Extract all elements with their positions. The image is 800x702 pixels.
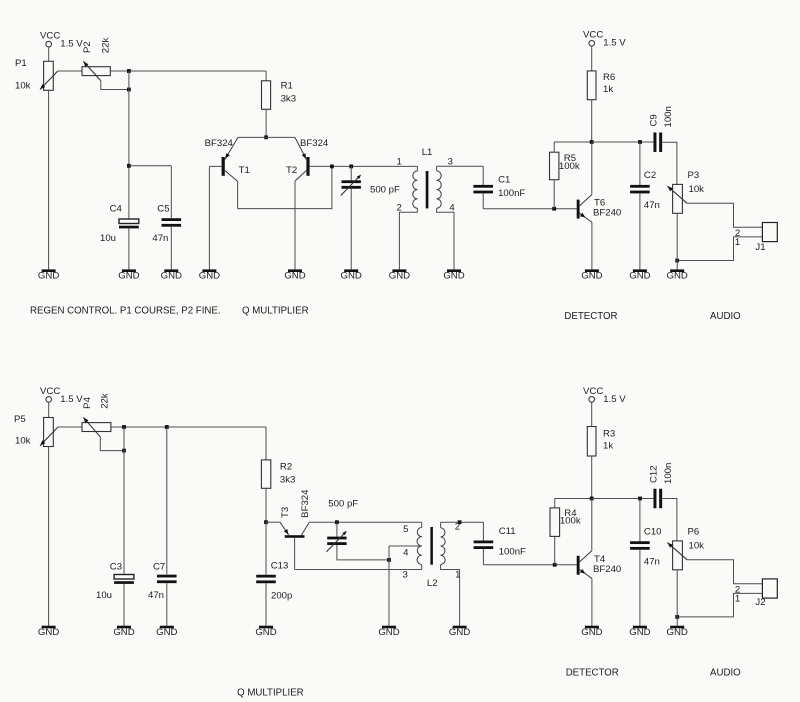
svg-text:P3: P3 [688, 170, 700, 181]
svg-text:3: 3 [448, 156, 453, 167]
svg-text:100n: 100n [663, 463, 674, 484]
svg-text:GND: GND [38, 271, 59, 282]
svg-text:GND: GND [118, 271, 139, 282]
svg-text:GND: GND [341, 271, 362, 282]
svg-text:1: 1 [455, 570, 460, 581]
svg-text:GND: GND [255, 627, 276, 638]
svg-text:BF324: BF324 [300, 489, 311, 518]
svg-text:100nF: 100nF [498, 188, 525, 199]
svg-text:GND: GND [113, 627, 134, 638]
svg-text:1: 1 [735, 237, 740, 248]
svg-text:1k: 1k [603, 84, 613, 95]
svg-text:T1: T1 [239, 165, 250, 176]
svg-text:4: 4 [403, 548, 409, 559]
svg-text:C4: C4 [110, 203, 123, 214]
svg-text:1: 1 [735, 593, 740, 604]
svg-text:GND: GND [199, 271, 220, 282]
svg-text:J2: J2 [755, 597, 765, 608]
svg-text:1.5 V: 1.5 V [60, 39, 83, 50]
svg-text:L2: L2 [427, 578, 438, 589]
svg-text:BF324: BF324 [300, 138, 329, 149]
svg-text:3k3: 3k3 [280, 475, 295, 486]
svg-text:AUDIO: AUDIO [710, 311, 741, 322]
svg-text:10k: 10k [689, 540, 705, 551]
svg-text:C7: C7 [153, 562, 165, 573]
svg-text:REGEN CONTROL. P1 COURSE, P2 F: REGEN CONTROL. P1 COURSE, P2 FINE. [30, 306, 221, 317]
svg-text:R1: R1 [281, 80, 293, 91]
svg-text:C3: C3 [110, 562, 122, 573]
svg-text:BF240: BF240 [593, 208, 621, 219]
svg-text:R6: R6 [603, 72, 615, 83]
svg-text:1: 1 [397, 156, 402, 167]
svg-text:BF324: BF324 [205, 138, 234, 149]
svg-text:VCC: VCC [583, 30, 603, 41]
svg-text:100k: 100k [560, 516, 581, 527]
svg-text:3k3: 3k3 [281, 94, 296, 105]
svg-text:C12: C12 [648, 465, 659, 483]
svg-text:R2: R2 [280, 461, 292, 472]
svg-text:10u: 10u [96, 590, 112, 601]
svg-text:500 pF: 500 pF [328, 499, 358, 510]
svg-text:10u: 10u [100, 233, 116, 244]
svg-text:500 pF: 500 pF [370, 184, 400, 195]
svg-text:C13: C13 [271, 561, 289, 572]
svg-text:3: 3 [403, 570, 408, 581]
svg-text:Q MULTIPLIER: Q MULTIPLIER [237, 688, 304, 699]
svg-text:47n: 47n [148, 590, 164, 601]
svg-text:GND: GND [284, 271, 305, 282]
svg-text:GND: GND [443, 271, 464, 282]
svg-text:DETECTOR: DETECTOR [566, 668, 619, 679]
svg-text:47n: 47n [152, 233, 168, 244]
svg-text:2: 2 [455, 522, 460, 533]
svg-text:GND: GND [378, 627, 399, 638]
svg-text:100nF: 100nF [499, 546, 526, 557]
svg-text:GND: GND [38, 627, 59, 638]
svg-text:200p: 200p [271, 590, 292, 601]
svg-text:22k: 22k [99, 393, 110, 409]
svg-text:10k: 10k [15, 436, 31, 447]
svg-text:1.5 V: 1.5 V [603, 38, 626, 49]
svg-text:VCC: VCC [583, 386, 603, 397]
svg-text:AUDIO: AUDIO [710, 668, 741, 679]
svg-text:100k: 100k [559, 161, 580, 172]
svg-text:GND: GND [629, 627, 650, 638]
svg-text:J1: J1 [755, 242, 765, 253]
svg-text:47n: 47n [644, 556, 660, 567]
svg-text:4: 4 [449, 202, 455, 213]
svg-text:L1: L1 [422, 147, 433, 158]
svg-text:GND: GND [161, 271, 182, 282]
svg-text:GND: GND [581, 271, 602, 282]
svg-text:T3: T3 [280, 507, 291, 518]
svg-text:C9: C9 [648, 114, 659, 126]
svg-text:C2: C2 [644, 170, 656, 181]
svg-text:GND: GND [581, 627, 602, 638]
svg-text:47n: 47n [644, 200, 660, 211]
svg-text:2: 2 [397, 202, 402, 213]
svg-text:1.5 V: 1.5 V [60, 394, 83, 405]
svg-text:R3: R3 [603, 428, 615, 439]
svg-text:1.5 V: 1.5 V [603, 394, 626, 405]
svg-text:C1: C1 [498, 174, 510, 185]
svg-text:P6: P6 [688, 527, 700, 538]
svg-text:10k: 10k [15, 80, 31, 91]
svg-text:VCC: VCC [40, 31, 60, 42]
svg-text:C10: C10 [644, 527, 662, 538]
svg-text:Q MULTIPLIER: Q MULTIPLIER [242, 306, 309, 317]
svg-text:P4: P4 [82, 396, 93, 408]
svg-text:GND: GND [667, 271, 688, 282]
svg-text:GND: GND [629, 271, 650, 282]
svg-text:22k: 22k [101, 38, 112, 54]
svg-text:GND: GND [156, 627, 177, 638]
svg-text:5: 5 [403, 524, 408, 535]
svg-text:100n: 100n [663, 106, 674, 127]
svg-text:C11: C11 [499, 526, 516, 537]
svg-text:BF240: BF240 [593, 564, 621, 575]
svg-text:P5: P5 [14, 414, 26, 425]
svg-text:1k: 1k [603, 440, 613, 451]
svg-text:T2: T2 [286, 165, 297, 176]
svg-text:P2: P2 [82, 41, 93, 53]
svg-text:GND: GND [449, 627, 470, 638]
svg-text:VCC: VCC [40, 386, 60, 397]
svg-text:C5: C5 [157, 203, 169, 214]
svg-text:P1: P1 [15, 58, 27, 69]
svg-text:10k: 10k [689, 184, 705, 195]
svg-text:GND: GND [667, 627, 688, 638]
svg-text:DETECTOR: DETECTOR [564, 311, 617, 322]
svg-text:GND: GND [389, 271, 410, 282]
